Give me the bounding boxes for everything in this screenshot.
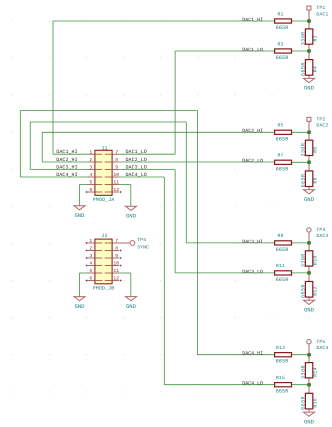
resistor R11: [275, 263, 309, 283]
svg-text:R5: R5: [278, 123, 284, 129]
svg-text:GND: GND: [304, 85, 315, 92]
J2 pin 10: [105, 261, 122, 267]
ground J2 right: [126, 297, 137, 310]
wire DAC1_LO from J1 pin 7: [119, 153, 175, 155]
svg-text:11: 11: [113, 180, 119, 186]
svg-text:DAC3_HI: DAC3_HI: [56, 165, 77, 171]
svg-text:4: 4: [89, 172, 92, 178]
svg-text:R16: R16: [312, 398, 318, 408]
node DAC3 HI junction: [307, 241, 311, 245]
svg-text:DAC3_HI: DAC3_HI: [242, 239, 263, 245]
J2 pin 9: [105, 253, 122, 259]
resistor R8: [301, 162, 319, 189]
svg-text:665R: 665R: [301, 396, 307, 410]
svg-text:DAC2: DAC2: [316, 123, 328, 129]
connector J2 (PMOD_JB) body: [93, 233, 115, 291]
svg-text:12: 12: [113, 187, 119, 193]
svg-text:DAC1: DAC1: [316, 11, 328, 17]
svg-text:665R: 665R: [276, 247, 289, 253]
resistor R9: [275, 233, 309, 253]
svg-text:R15: R15: [276, 375, 285, 381]
svg-text:J2: J2: [101, 233, 107, 239]
svg-text:665R: 665R: [276, 25, 289, 31]
J1 pin 6: [86, 187, 103, 193]
wire DAC3_HI vertical middle: [185, 122, 187, 243]
wire DAC4_HI from J1 pin 4: [20, 176, 87, 178]
wire J2 pin 11 to ground: [119, 273, 131, 297]
svg-text:R7: R7: [278, 153, 284, 159]
node DAC1 HI junction: [307, 19, 311, 23]
svg-text:1: 1: [89, 238, 92, 244]
resistor R10: [301, 243, 319, 273]
node DAC2 HI junction: [307, 130, 311, 134]
connector J1 (PMOD_JA) body: [93, 145, 115, 203]
svg-text:R12: R12: [312, 286, 318, 296]
wire DAC3_HI vertical left: [29, 122, 31, 170]
svg-text:330R: 330R: [301, 31, 307, 45]
svg-text:DAC1_LO: DAC1_LO: [242, 47, 263, 53]
wire DAC3_LO horizontal to R11: [175, 272, 275, 274]
svg-text:DAC4_LO: DAC4_LO: [126, 172, 147, 178]
svg-text:DAC2_HI: DAC2_HI: [56, 157, 77, 163]
wire DAC3_HI horizontal to R9: [186, 242, 274, 244]
svg-text:R1: R1: [278, 11, 284, 17]
svg-text:5: 5: [89, 180, 92, 186]
wire J1 pin 11 to ground: [119, 185, 131, 207]
svg-text:10: 10: [113, 172, 119, 178]
svg-text:6: 6: [89, 187, 92, 193]
svg-text:2: 2: [89, 157, 92, 163]
svg-text:R4: R4: [312, 66, 318, 72]
wire J1 pin 5 to ground: [80, 185, 88, 206]
svg-text:665R: 665R: [276, 277, 289, 283]
svg-text:330R: 330R: [301, 143, 307, 157]
wire DAC1_HI horizontal to R1: [53, 20, 275, 22]
J2 pin 8: [105, 246, 122, 252]
svg-text:5: 5: [89, 268, 92, 274]
svg-text:665R: 665R: [276, 136, 289, 142]
ground block 4: [304, 412, 315, 425]
svg-text:4: 4: [89, 261, 92, 267]
svg-text:2: 2: [89, 246, 92, 252]
J1 pin 4: [88, 172, 103, 178]
wire J2 pin 5 to ground: [80, 273, 88, 297]
wire DAC4_HI horizontal to R13: [197, 354, 274, 356]
svg-text:330R: 330R: [301, 253, 307, 267]
wire DAC3_HI horizontal upper: [30, 121, 186, 123]
svg-text:DAC3_LO: DAC3_LO: [126, 165, 147, 171]
svg-text:DAC2_LO: DAC2_LO: [126, 157, 147, 163]
svg-text:665R: 665R: [276, 389, 289, 395]
svg-text:DAC3_LO: DAC3_LO: [242, 269, 263, 275]
svg-text:665R: 665R: [276, 166, 289, 172]
svg-text:TP1: TP1: [316, 5, 325, 11]
svg-text:DAC1_HI: DAC1_HI: [242, 17, 263, 23]
svg-text:R11: R11: [276, 263, 285, 269]
svg-text:GND: GND: [126, 212, 137, 219]
svg-text:GND: GND: [126, 303, 137, 310]
J1 pin 12: [105, 187, 122, 193]
test point TP4: [119, 237, 149, 250]
J1 pin 2: [88, 157, 103, 163]
wire DAC4_HI vertical left: [19, 111, 21, 178]
J2 pin 1: [86, 238, 103, 244]
svg-text:J1: J1: [101, 145, 107, 151]
svg-text:665R: 665R: [301, 284, 307, 298]
J1 pin 1: [88, 149, 103, 155]
svg-text:1: 1: [89, 149, 92, 155]
ground block 3: [304, 300, 315, 313]
svg-text:TP2: TP2: [316, 116, 325, 122]
svg-text:665R: 665R: [301, 62, 307, 76]
wire DAC1_HI from J1 pin 1: [53, 153, 88, 155]
resistor R5: [275, 123, 309, 143]
ground block 2: [304, 190, 315, 203]
resistor R13: [275, 345, 309, 365]
J2 pin 2: [86, 246, 103, 252]
J2 pin 6: [86, 276, 103, 282]
svg-text:665R: 665R: [301, 173, 307, 187]
svg-text:PMOD_JA: PMOD_JA: [93, 197, 115, 203]
J2 pin 3: [86, 253, 103, 259]
resistor R14: [301, 355, 319, 385]
ground J1 right: [126, 206, 137, 219]
svg-text:8: 8: [115, 157, 118, 163]
svg-text:R8: R8: [312, 177, 318, 183]
svg-text:DAC2_HI: DAC2_HI: [242, 128, 263, 134]
svg-text:GND: GND: [304, 307, 315, 314]
wire DAC4_HI vertical middle: [196, 111, 198, 355]
svg-text:DAC4_HI: DAC4_HI: [56, 172, 77, 178]
J1 pin 8: [105, 157, 120, 163]
wire DAC3_HI from J1 pin 3: [30, 169, 87, 171]
wire DAC1_LO horizontal to R3: [175, 50, 275, 52]
wire DAC4_LO horizontal to R15: [164, 384, 274, 386]
svg-text:GND: GND: [304, 196, 315, 203]
wire DAC2_LO from J1 pin 8 to R7: [119, 161, 274, 163]
resistor R16: [301, 385, 319, 412]
svg-text:3: 3: [89, 253, 92, 259]
svg-text:TP4: TP4: [137, 237, 146, 243]
svg-text:9: 9: [115, 165, 118, 171]
resistor R1: [275, 11, 309, 31]
svg-text:DAC4: DAC4: [316, 345, 328, 351]
svg-text:12: 12: [113, 276, 119, 282]
svg-text:DAC3: DAC3: [316, 233, 328, 239]
wire DAC1_HI vertical: [52, 21, 54, 154]
svg-text:10: 10: [113, 261, 119, 267]
test point TP5: [307, 339, 329, 355]
svg-text:DAC2_LO: DAC2_LO: [242, 158, 263, 164]
node DAC4 LO junction: [307, 383, 311, 387]
svg-text:6: 6: [89, 276, 92, 282]
test point TP1: [307, 5, 328, 21]
svg-text:TP3: TP3: [316, 227, 325, 233]
svg-text:PMOD_JB: PMOD_JB: [93, 286, 115, 292]
svg-text:TP5: TP5: [316, 339, 325, 345]
wire DAC4_LO from J1 pin 10: [119, 176, 164, 178]
wire DAC1_LO vertical: [174, 51, 176, 154]
svg-text:DAC1_HI: DAC1_HI: [56, 149, 77, 155]
wire DAC2_HI vertical: [41, 132, 43, 162]
resistor R6: [301, 132, 319, 162]
J2 pin 11: [105, 268, 120, 274]
svg-text:3: 3: [89, 165, 92, 171]
wire DAC4_LO vertical: [163, 177, 165, 385]
wire DAC2_HI from J1 pin 2: [42, 161, 87, 163]
svg-text:SYNC: SYNC: [137, 244, 149, 250]
svg-text:GND: GND: [74, 212, 85, 219]
wire DAC3_LO from J1 pin 9: [119, 169, 175, 171]
node DAC3 LO junction: [307, 271, 311, 275]
resistor R15: [275, 375, 309, 395]
node DAC4 HI junction: [307, 353, 311, 357]
test point TP3: [307, 227, 329, 243]
ground block 1: [304, 78, 315, 91]
node DAC1 LO junction: [307, 49, 311, 53]
svg-text:330R: 330R: [301, 365, 307, 379]
svg-text:7: 7: [115, 149, 118, 155]
svg-text:R14: R14: [312, 367, 318, 377]
J2 pin 5: [88, 268, 103, 274]
svg-text:R3: R3: [278, 41, 284, 47]
wire DAC3_LO vertical: [174, 170, 176, 273]
svg-text:11: 11: [113, 268, 119, 274]
resistor R3: [275, 41, 309, 61]
J1 pin 5: [88, 180, 103, 186]
svg-text:R13: R13: [276, 345, 285, 351]
wire DAC2_HI horizontal to R5: [42, 131, 274, 133]
resistor R7: [275, 153, 309, 173]
svg-text:665R: 665R: [276, 55, 289, 61]
node DAC2 LO junction: [307, 160, 311, 164]
svg-text:GND: GND: [74, 303, 85, 310]
svg-text:9: 9: [115, 253, 118, 259]
svg-text:DAC4_HI: DAC4_HI: [242, 351, 263, 357]
J1 pin 11: [105, 180, 120, 186]
resistor R12: [301, 273, 319, 300]
svg-text:665R: 665R: [276, 359, 289, 365]
svg-text:R6: R6: [312, 146, 318, 152]
svg-text:8: 8: [115, 246, 118, 252]
wire DAC4_HI horizontal upper: [20, 110, 197, 112]
J1 pin 9: [105, 165, 120, 171]
J1 pin 10: [105, 172, 120, 178]
J1 pin 3: [88, 165, 103, 171]
J2 pin 12: [105, 276, 122, 282]
J1 pin 7: [105, 149, 120, 155]
ground J2 left: [74, 297, 85, 310]
svg-text:R10: R10: [312, 255, 318, 265]
svg-text:R2: R2: [312, 35, 318, 41]
resistor R2: [301, 21, 319, 51]
ground J1 left: [74, 206, 85, 219]
svg-text:R9: R9: [278, 233, 284, 239]
svg-text:DAC4_LO: DAC4_LO: [242, 381, 263, 387]
test point TP2: [307, 116, 328, 132]
svg-text:DAC1_LO: DAC1_LO: [126, 149, 147, 155]
J2 pin 4: [86, 261, 103, 267]
svg-text:7: 7: [115, 238, 118, 244]
svg-text:GND: GND: [304, 418, 315, 425]
J2 pin 7: [105, 238, 120, 244]
resistor R4: [301, 51, 319, 78]
